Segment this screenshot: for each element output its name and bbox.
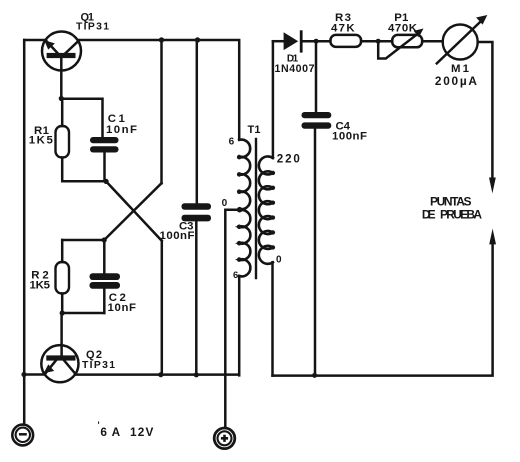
svg-text:0: 0 xyxy=(222,198,228,209)
svg-text:10nF: 10nF xyxy=(108,302,137,314)
svg-text:220: 220 xyxy=(277,153,300,166)
svg-text:DE: DE xyxy=(422,207,436,221)
svg-text:A: A xyxy=(112,425,121,439)
svg-text:100nF: 100nF xyxy=(332,130,367,142)
svg-text:Q2: Q2 xyxy=(86,349,102,361)
svg-text:6: 6 xyxy=(229,137,235,148)
svg-text:1K5: 1K5 xyxy=(29,135,54,147)
svg-text:': ' xyxy=(98,420,100,430)
svg-text:10nF: 10nF xyxy=(106,124,137,136)
svg-text:6: 6 xyxy=(233,269,238,280)
svg-text:PRUEBA: PRUEBA xyxy=(440,207,482,221)
svg-text:TIP31: TIP31 xyxy=(76,22,109,33)
svg-text:100nF: 100nF xyxy=(160,230,195,242)
svg-text:6: 6 xyxy=(100,425,107,439)
svg-text:TIP31: TIP31 xyxy=(82,360,115,371)
svg-text:200µA: 200µA xyxy=(435,74,477,88)
svg-text:470K: 470K xyxy=(388,23,418,35)
svg-text:1N4007: 1N4007 xyxy=(275,63,315,75)
svg-text:0: 0 xyxy=(276,255,282,266)
svg-text:T1: T1 xyxy=(248,124,261,136)
svg-text:12V: 12V xyxy=(130,425,154,439)
svg-text:47K: 47K xyxy=(331,23,355,35)
svg-text:1K5: 1K5 xyxy=(30,280,51,292)
